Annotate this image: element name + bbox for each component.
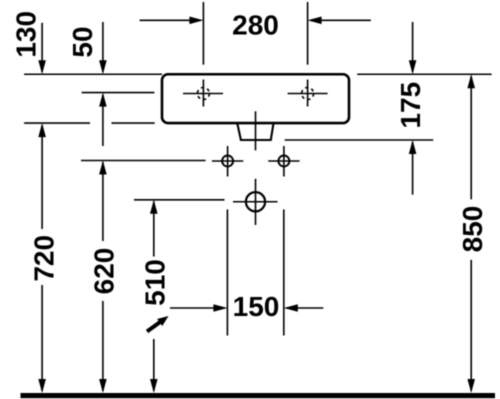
svg-text:50: 50	[67, 26, 98, 57]
wire: overflow level extension line y=140	[285, 139, 434, 141]
dimension 280 line	[140, 19, 371, 21]
drain hole circle	[233, 179, 278, 225]
svg-text:850: 850	[457, 206, 488, 253]
arrowhead 150 right	[213, 304, 227, 312]
dimension 50 line	[102, 22, 104, 146]
arrowhead 50 down	[99, 60, 107, 74]
arrowhead 720 up	[38, 123, 46, 137]
arrowhead 50 up	[99, 93, 107, 107]
arrowhead 510 up	[150, 200, 158, 214]
arrowhead 850 up	[467, 74, 475, 88]
svg-text:280: 280	[232, 9, 279, 40]
adjustability arrow (diagonal)	[147, 316, 169, 332]
arrowhead 280 right	[189, 17, 203, 25]
wire: 280 extension line right x=307.6	[307, 2, 309, 65]
tap hole crosshair left	[183, 80, 223, 107]
wire: basin bottom extension line left segment	[24, 122, 90, 124]
arrowhead 175 up	[409, 140, 417, 154]
wire: top reference line y=74.25 left extension	[24, 73, 162, 75]
centerline through outlet	[255, 111, 257, 150]
svg-text:150: 150	[233, 291, 280, 322]
fixing hole right	[268, 146, 299, 177]
wire: tap-hole level extension line y=92.6	[82, 92, 155, 94]
fixing hole left	[212, 146, 243, 177]
arrowhead 620 up	[99, 161, 107, 175]
svg-text:510: 510	[140, 259, 171, 306]
dimension 720 line	[41, 125, 43, 391]
wire: basin bottom extension line right segment	[112, 122, 155, 124]
arrowhead 720 down	[38, 379, 46, 393]
overflow outlet trapezoid	[237, 124, 273, 140]
washbasin outline	[162, 74, 349, 123]
svg-text:175: 175	[395, 82, 426, 129]
arrowhead 130 down	[38, 60, 46, 74]
floor line	[21, 393, 496, 398]
wire: top reference line y=74.25 right extension	[357, 73, 491, 75]
arrowhead 620 down	[99, 379, 107, 393]
svg-text:130: 130	[10, 11, 41, 58]
dimension 510 line	[153, 201, 155, 391]
wire: fixing-hole level extension line y=160.5	[81, 160, 206, 162]
arrowhead 175 down	[409, 60, 417, 74]
svg-text:720: 720	[28, 235, 59, 282]
dimension 175 line	[412, 22, 414, 195]
dimension 850 line	[470, 76, 472, 391]
tap hole crosshair right	[288, 80, 328, 107]
arrowhead 150 left	[284, 304, 298, 312]
wire: 280 extension line left x=203.4	[202, 2, 204, 65]
arrowhead 510 down	[150, 379, 158, 393]
wire: 150 extension line left x=227.4	[226, 209, 228, 335]
dimension 130 line	[41, 23, 43, 72]
dimension 150 line	[170, 307, 323, 309]
wire: 150 extension line right x=283.8	[283, 209, 285, 335]
wire: drain level extension line y=199.8	[134, 199, 225, 201]
arrowhead 280 left	[308, 17, 322, 25]
svg-text:620: 620	[89, 248, 120, 295]
arrowhead 850 down	[467, 379, 475, 393]
dimension 620 line	[102, 162, 104, 391]
